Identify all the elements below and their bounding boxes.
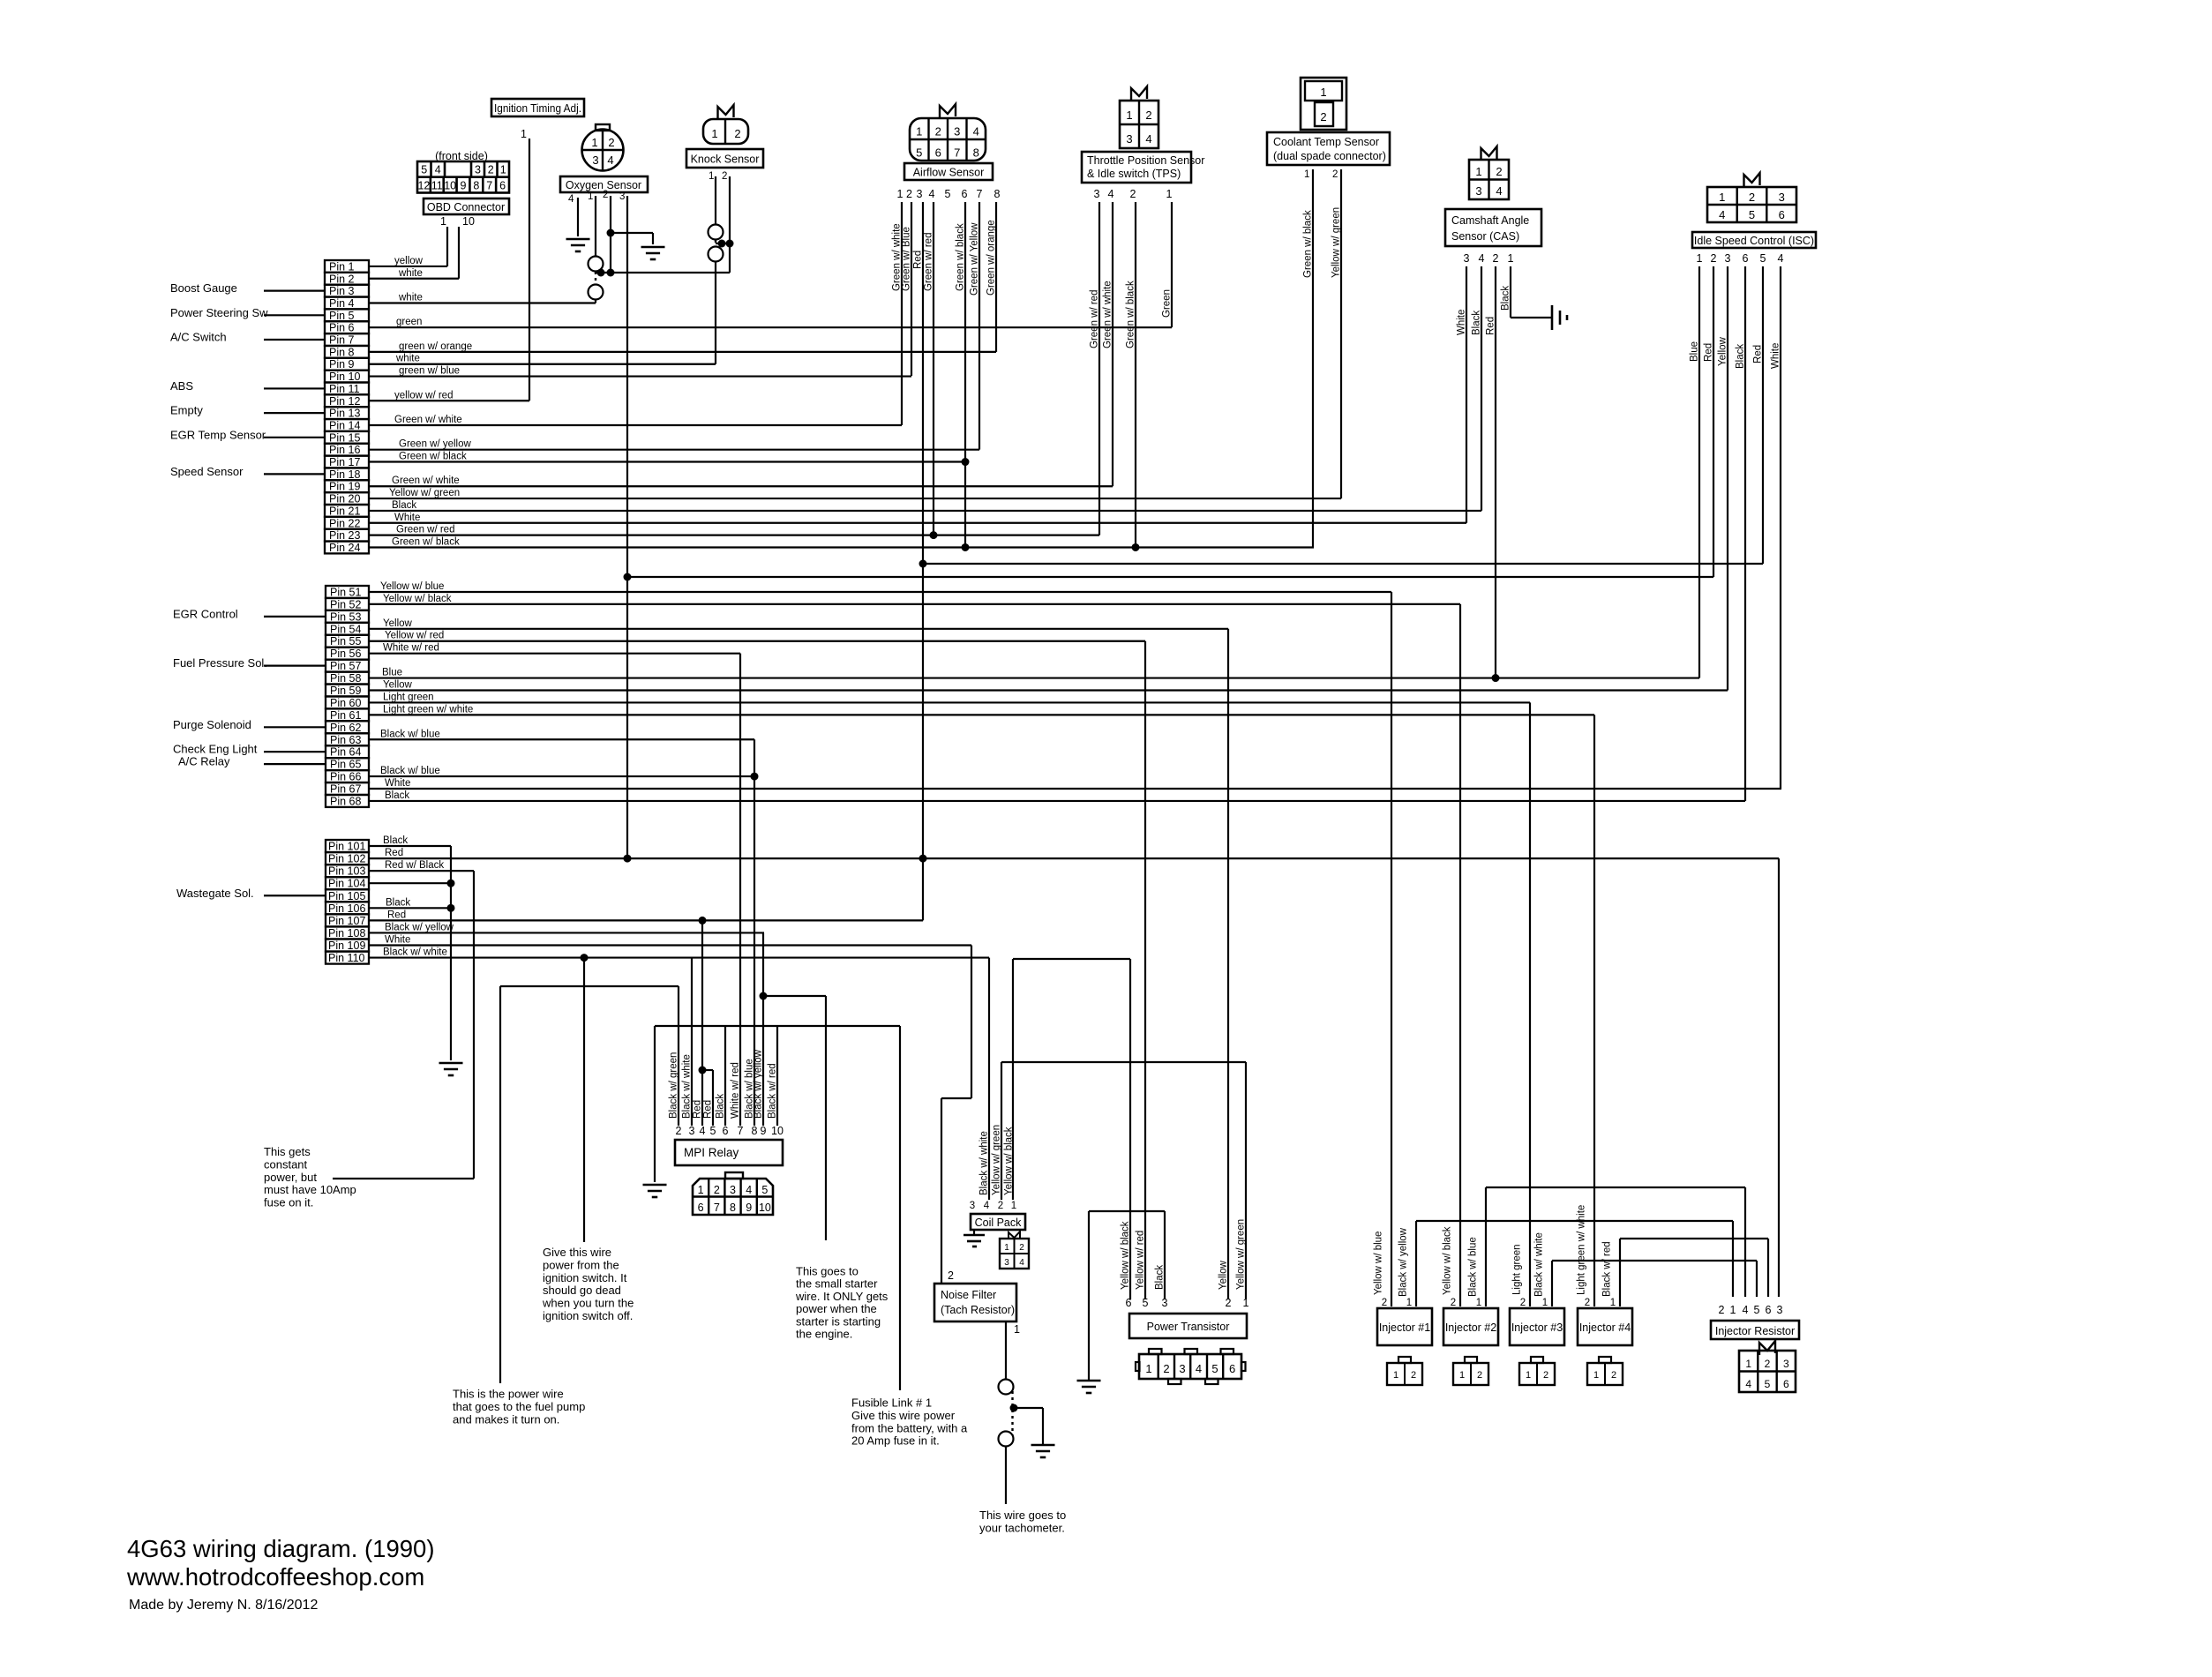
wire pin 16 Green w/ yellow [369,449,979,451]
wire pin 24 Green w/ black [369,546,1314,548]
svg-text:Black: Black [386,897,410,908]
svg-text:1: 1 [1459,1370,1465,1381]
svg-text:Black w/ white: Black w/ white [682,1054,693,1119]
wire CAS1 to ground [1510,266,1511,318]
svg-text:3: 3 [1004,1258,1009,1268]
svg-text:Black: Black [1155,1265,1166,1290]
bowtie CAS [1481,146,1497,161]
svg-text:Pin 63: Pin 63 [330,734,361,746]
wire pin 2 white [369,278,459,280]
svg-text:1: 1 [1243,1297,1249,1309]
injector2 connector symbol [1453,1363,1488,1385]
wire oxygen-knock link [596,272,730,273]
bowtie injector resistor [1759,1341,1775,1355]
svg-text:Green w/ black: Green w/ black [399,452,467,462]
svg-text:Black: Black [1501,286,1511,311]
knock sensor symbol [703,119,748,144]
wire airflow3 long [922,202,924,920]
wire Check Eng Light to ECU [264,751,325,752]
svg-text:Black w/ white: Black w/ white [383,947,447,958]
wire injector4 pin1 link [1619,1239,1621,1306]
svg-text:6: 6 [1743,252,1749,265]
svg-text:Blue: Blue [382,668,402,678]
svg-text:2: 2 [1585,1298,1590,1308]
wire pin 6 green [369,326,1172,328]
junction pin102/oxy3 [624,855,632,863]
svg-text:10: 10 [759,1202,771,1214]
svg-text:Pin 54: Pin 54 [330,623,361,635]
CAS connector symbol [1469,160,1509,199]
svg-text:Pin 24: Pin 24 [329,542,360,554]
svg-text:Noise Filter: Noise Filter [941,1289,996,1301]
svg-text:3: 3 [1777,1304,1783,1316]
ground MPI relay [643,1184,667,1187]
svg-text:6: 6 [1126,1297,1132,1309]
svg-text:Pin 101: Pin 101 [328,841,365,853]
svg-text:Pin 1: Pin 1 [329,260,355,273]
svg-text:3: 3 [1464,252,1470,265]
svg-text:white: white [395,354,420,364]
svg-text:Boost Gauge: Boost Gauge [170,281,237,295]
svg-text:Pin 57: Pin 57 [330,660,361,672]
wire fusible link vertical [899,1026,901,1390]
svg-text:1: 1 [1014,1323,1020,1336]
wire pin 23 Green w/ red [369,535,1099,536]
wire EGR Temp Sensor to ECU [264,437,325,438]
svg-text:1: 1 [1508,252,1514,265]
wire TPS3 to pin23 [1099,202,1100,535]
svg-text:Light green: Light green [1512,1244,1523,1295]
wire pin 10 green w/ blue [369,375,911,377]
wire pin 19 Green w/ white [369,485,1113,487]
wire oxygen pin1 lower [595,299,596,303]
svg-text:2: 2 [488,164,494,176]
wire pin 20 Yellow w/ green [369,498,1341,499]
connector circles oxygen pin1 [589,257,604,272]
svg-text:Idle Speed Control (ISC): Idle Speed Control (ISC) [1694,235,1814,247]
svg-text:Pin 51: Pin 51 [330,586,361,598]
svg-text:1: 1 [1475,165,1481,178]
CAS label box [1445,209,1541,246]
svg-text:This wire goes to: This wire goes to [979,1509,1066,1522]
svg-text:Pin 8: Pin 8 [329,346,355,358]
wire Wastegate Sol. to ECU [264,895,325,896]
Ignition Timing Adj. label box [491,99,584,116]
svg-text:5: 5 [1211,1362,1218,1375]
svg-text:1: 1 [588,191,593,202]
svg-text:4: 4 [1719,208,1725,221]
svg-text:Camshaft Angle: Camshaft Angle [1451,214,1529,227]
svg-text:2: 2 [1145,109,1151,122]
svg-text:7: 7 [954,146,960,160]
wire pin 14 Green w/ white [369,424,902,426]
wire pin 21 Black [369,510,1481,512]
wire ground bus pins101/104/106 [450,846,452,1060]
junction MPI9 starter branch [760,992,768,1000]
wire pin 4 white [369,302,596,303]
svg-text:Pin 102: Pin 102 [328,853,365,865]
wire coil1-PT6 link [1013,958,1130,960]
svg-text:Red: Red [703,1100,714,1119]
svg-text:Yellow: Yellow [383,618,413,629]
svg-text:must have 10Amp: must have 10Amp [264,1183,356,1196]
svg-text:MPI Relay: MPI Relay [684,1146,739,1159]
wire pin 108 Black w/ yellow [369,932,764,933]
svg-text:4: 4 [1743,1304,1749,1316]
wire injector1 pin1 link [1415,1221,1417,1306]
svg-text:Pin 23: Pin 23 [329,529,360,542]
wire coil1 vertical [1012,959,1014,1200]
wire pin 104 [369,882,451,884]
ground oxygen pin4 [566,238,590,241]
svg-text:A/C Relay: A/C Relay [178,755,230,768]
svg-text:1: 1 [1476,1298,1481,1308]
svg-text:3: 3 [1475,184,1481,198]
svg-text:1: 1 [1166,188,1173,200]
svg-text:Yellow w/ green: Yellow w/ green [1236,1219,1247,1290]
svg-text:Red: Red [1704,343,1714,362]
svg-text:Green: Green [1162,289,1173,318]
wire injector2 pin2 vertical [1459,604,1461,1306]
wire Fuel Pressure Sol. to ECU [264,665,325,667]
wire airflow6 to pin24 [964,202,966,547]
ECU connector block pins 101-110 [326,840,369,852]
svg-text:1: 1 [1320,86,1326,99]
wire pin 54 Yellow [369,628,1228,630]
svg-text:White: White [1771,343,1781,369]
wire pin 58 Blue [369,677,1699,678]
svg-text:8: 8 [994,188,1001,200]
ECU connector block pins 1-24 [325,260,369,273]
svg-text:Pin 7: Pin 7 [329,334,355,347]
Knock Sensor label box [686,149,763,168]
svg-text:A/C Switch: A/C Switch [170,331,227,344]
wire Power Steering Sw to ECU [264,314,325,316]
svg-text:Coolant Temp Sensor: Coolant Temp Sensor [1273,136,1379,148]
svg-text:Pin 3: Pin 3 [329,285,355,297]
junction pin110/ignition-note [581,954,589,962]
svg-text:Red: Red [387,910,406,920]
wire knock pin1 upper [715,176,716,225]
svg-text:6: 6 [1229,1362,1235,1375]
svg-text:Pin 53: Pin 53 [330,610,361,623]
wire airflow2 to pin10 [911,202,912,376]
wire pin 61 Light green w/ white [369,714,1594,715]
svg-text:Black w/ blue: Black w/ blue [1468,1237,1479,1297]
svg-text:5: 5 [1749,208,1755,221]
svg-text:2: 2 [1719,1304,1725,1316]
svg-text:2: 2 [1765,1358,1771,1370]
svg-text:Green w/ Blue: Green w/ Blue [902,227,912,291]
svg-text:Pin 2: Pin 2 [329,273,355,285]
svg-text:OBD Connector: OBD Connector [427,201,505,213]
svg-text:White: White [385,778,410,789]
svg-text:2: 2 [906,188,912,200]
svg-text:2: 2 [734,127,740,140]
wire pin 17 Green w/ black [369,460,965,462]
svg-text:1: 1 [1145,1362,1151,1375]
svg-text:Pin 14: Pin 14 [329,419,360,431]
svg-text:starter is starting: starter is starting [796,1314,881,1328]
junction knock link b [726,240,734,248]
svg-text:1: 1 [1593,1370,1599,1381]
junction pin106/ground bus [447,904,455,912]
svg-text:Pin 55: Pin 55 [330,635,361,648]
wire coil2 vertical [1001,1062,1002,1200]
junction knock link a [718,240,726,248]
svg-text:5: 5 [421,164,427,176]
svg-text:10: 10 [444,180,456,192]
wire MPI power bus [655,1025,900,1027]
svg-text:4: 4 [1108,188,1114,200]
svg-text:3: 3 [1783,1358,1789,1370]
junction pin102/airflow3 [919,855,927,863]
svg-text:Green w/ Yellow: Green w/ Yellow [970,222,980,296]
svg-text:Black w/ yellow: Black w/ yellow [1398,1227,1409,1297]
svg-text:Pin 59: Pin 59 [330,685,361,697]
svg-text:Pin 66: Pin 66 [330,771,361,783]
svg-text:2: 2 [1163,1362,1169,1375]
wire airflow7 to pin16 [979,202,980,450]
svg-text:3: 3 [689,1125,695,1137]
svg-text:5: 5 [916,146,922,160]
injector #1 box [1377,1308,1432,1345]
injector #4 box [1578,1308,1632,1345]
svg-text:Black w/ yellow: Black w/ yellow [385,922,454,932]
svg-text:Black w/ yellow: Black w/ yellow [754,1049,764,1119]
svg-text:1: 1 [709,171,714,182]
svg-text:Pin 103: Pin 103 [328,865,365,878]
wire coil3 jog [971,946,972,1098]
ground ECU pins bus [439,1062,463,1065]
svg-text:2: 2 [1332,169,1338,180]
wire pin 63 Black w/ blue [369,738,754,740]
svg-text:Green w/ white: Green w/ white [392,475,460,486]
svg-text:2: 2 [948,1269,954,1282]
power transistor connector symbol [1139,1354,1241,1379]
svg-text:3: 3 [954,125,960,139]
wire noise filter pin1 [1005,1321,1007,1379]
wire Empty to ECU [264,412,325,414]
svg-text:Black: Black [383,835,408,846]
junction fuse branch [1010,1404,1018,1412]
wire Speed Sensor to ECU [264,473,325,475]
svg-text:1: 1 [1004,1243,1009,1253]
coil connector symbol [1000,1239,1029,1269]
svg-text:Green w/ black: Green w/ black [1303,210,1314,278]
svg-text:Green w/ black: Green w/ black [956,223,966,291]
svg-text:2: 2 [603,190,608,200]
wire A/C Switch to ECU [264,339,325,341]
svg-text:1: 1 [1526,1370,1531,1381]
svg-text:Pin 4: Pin 4 [329,297,355,310]
junction airflow3/ISC5 branch [919,560,927,568]
svg-text:Pin 60: Pin 60 [330,697,361,709]
wire pin 52 Yellow w/ black [369,603,1460,605]
svg-text:10: 10 [771,1125,784,1137]
wire MPI ground drop [654,1026,656,1182]
svg-text:5: 5 [1754,1304,1760,1316]
wire CAS3 to pin22 [1466,266,1467,523]
svg-text:4: 4 [1145,132,1151,146]
svg-text:Light green w/ white: Light green w/ white [383,704,473,715]
wire coil4 vertical [988,958,990,1200]
svg-text:1: 1 [1542,1298,1548,1308]
svg-text:2: 2 [608,136,614,149]
svg-text:Airflow Sensor: Airflow Sensor [913,167,985,179]
wire PT3 ground bracket [1164,1211,1166,1299]
injector resistor connector symbol [1739,1351,1796,1392]
svg-text:Pin 65: Pin 65 [330,759,361,771]
wire PT1 vertical [1245,1062,1247,1299]
svg-text:from the battery, with a: from the battery, with a [851,1421,968,1434]
svg-text:2: 2 [935,125,941,139]
svg-text:Pin 104: Pin 104 [328,878,365,890]
svg-text:Pin 67: Pin 67 [330,783,361,796]
junction MPI4/MPI5 [699,1067,707,1074]
wire pin 8 green w/ orange [369,351,996,353]
wire pin 60 Light green [369,701,1530,703]
svg-text:1: 1 [1730,1304,1736,1316]
svg-text:Pin 20: Pin 20 [329,493,360,505]
svg-text:2: 2 [1226,1297,1232,1309]
wire coil2-PT1 link [1001,1061,1246,1063]
Oxygen Sensor label box [560,176,648,192]
wire oxygen pin3 [626,196,628,858]
svg-text:White w/ red: White w/ red [731,1062,741,1119]
svg-text:white: white [398,268,423,279]
svg-text:1: 1 [440,215,446,228]
ground CAS battery symbol [1551,305,1554,330]
wire MPI2 feed horizontal [500,985,679,987]
svg-text:1: 1 [916,125,922,139]
svg-text:Pin 62: Pin 62 [330,722,361,734]
junction oxy link b [607,269,615,277]
svg-text:your tachometer.: your tachometer. [979,1522,1065,1535]
bowtie TPS [1131,86,1147,101]
svg-text:power, but: power, but [264,1171,317,1184]
wire pin 51 Yellow w/ blue [369,591,1391,593]
wire injector3 pin1 link [1551,1261,1553,1306]
wire MPI4 vertical [701,920,703,1126]
svg-text:ignition switch. It: ignition switch. It [543,1271,627,1284]
wire oxygen pin2 [610,196,611,273]
wire fuel pump vertical [499,986,501,1383]
svg-text:Green w/ yellow: Green w/ yellow [399,439,472,450]
svg-text:1: 1 [1745,1358,1751,1370]
svg-text:Black w/ blue: Black w/ blue [380,729,440,739]
svg-text:3: 3 [592,153,598,167]
wire PT6 vertical [1129,959,1131,1299]
svg-text:power when the: power when the [796,1302,877,1315]
injector3 connector symbol [1519,1363,1555,1385]
svg-text:Black w/ green: Black w/ green [669,1052,679,1119]
junction pin24/TPS2 [1132,543,1140,551]
svg-text:1: 1 [521,128,527,140]
svg-text:ABS: ABS [170,379,193,393]
svg-text:Black w/ red: Black w/ red [1602,1241,1613,1297]
svg-text:yellow w/ red: yellow w/ red [394,390,453,401]
svg-text:Speed Sensor: Speed Sensor [170,465,244,478]
svg-text:green w/ blue: green w/ blue [399,366,460,377]
wire coolant1 to pin24 [1312,169,1314,547]
bowtie airflow sensor [940,104,956,118]
svg-text:4: 4 [1496,184,1502,198]
wire oxygen pin4 [577,198,579,236]
wire MPI8 vertical [754,739,755,1126]
svg-text:4: 4 [973,125,979,139]
svg-text:www.hotrodcoffeeshop.com: www.hotrodcoffeeshop.com [126,1563,424,1591]
svg-text:White: White [394,513,420,523]
svg-text:2: 2 [1411,1370,1416,1381]
svg-text:Black: Black [1736,344,1746,369]
svg-text:4: 4 [607,153,613,167]
svg-text:Yellow w/ black: Yellow w/ black [1004,1127,1015,1195]
svg-text:This gets: This gets [264,1145,311,1158]
svg-text:8: 8 [473,180,479,192]
wire pin 67 White [369,788,1781,790]
wire MPI7 vertical [739,654,741,1126]
svg-text:white: white [398,292,423,303]
svg-text:4: 4 [1196,1362,1202,1375]
svg-text:and makes it turn on.: and makes it turn on. [453,1413,559,1426]
svg-text:1: 1 [1126,109,1132,122]
svg-text:Green w/ white: Green w/ white [394,415,462,425]
svg-text:Pin 12: Pin 12 [329,395,360,408]
wire pin 56 White w/ red [369,653,740,655]
svg-text:Ignition Timing Adj.: Ignition Timing Adj. [494,102,581,115]
svg-text:3: 3 [1179,1362,1185,1375]
wire OBD pin1 down [446,227,448,266]
svg-text:when you turn the: when you turn the [542,1297,634,1310]
svg-text:10: 10 [462,215,475,228]
svg-text:the engine.: the engine. [796,1328,852,1341]
junction oxy link a [597,269,605,277]
svg-text:green: green [396,317,422,327]
svg-text:2: 2 [1382,1298,1387,1308]
junction pin58/CAS2 [1492,674,1500,682]
svg-text:ignition switch off.: ignition switch off. [543,1309,633,1322]
svg-text:Pin 16: Pin 16 [329,444,360,456]
Power Transistor label box [1129,1314,1247,1338]
svg-text:2: 2 [722,171,727,182]
Injector Resistor label box [1711,1321,1799,1339]
svg-text:5: 5 [710,1125,716,1137]
fuse circles noise filter [999,1380,1014,1395]
svg-text:Injector #4: Injector #4 [1579,1321,1631,1334]
svg-text:Pin 10: Pin 10 [329,371,360,383]
svg-text:3: 3 [970,1201,975,1211]
svg-text:Pin 106: Pin 106 [328,902,365,915]
svg-text:wire. It ONLY gets: wire. It ONLY gets [795,1290,889,1303]
svg-text:Pin 58: Pin 58 [330,672,361,685]
svg-text:3: 3 [619,191,625,202]
svg-text:1: 1 [1697,252,1703,265]
wire ISC3 to pin59 [1727,266,1728,690]
svg-text:3: 3 [730,1184,736,1196]
svg-text:Pin 9: Pin 9 [329,358,355,371]
coolant temp sensor symbol [1301,78,1346,130]
svg-text:6: 6 [1779,208,1785,221]
svg-text:Yellow w/ green: Yellow w/ green [1331,207,1342,278]
svg-text:White w/ red: White w/ red [383,643,439,654]
svg-text:(Tach Resistor): (Tach Resistor) [941,1304,1015,1316]
junction oxygen pin2 ground branch [607,229,615,237]
svg-text:Pin 22: Pin 22 [329,517,360,529]
svg-text:1: 1 [500,164,506,176]
wire oxygen pin1 upper [595,196,596,257]
injector4 connector symbol [1587,1363,1623,1385]
